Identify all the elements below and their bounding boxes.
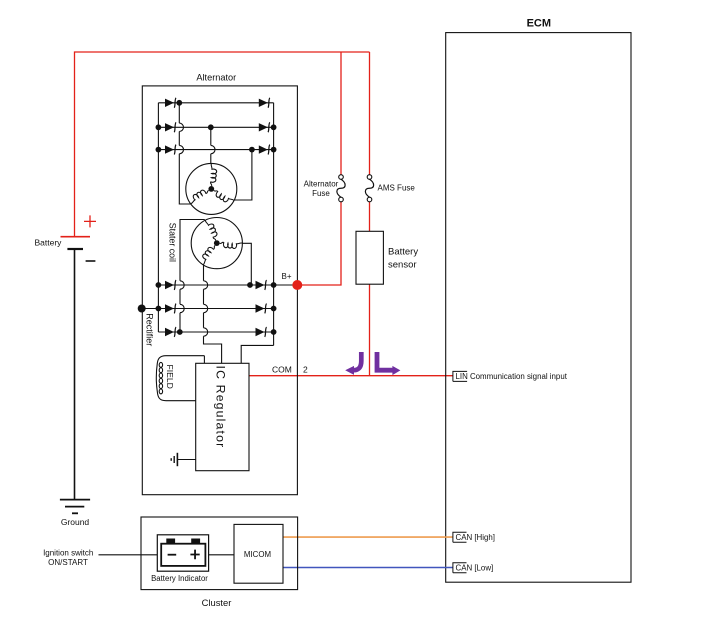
svg-text:FIELD: FIELD	[165, 365, 175, 389]
node row2 middle	[208, 124, 214, 130]
svg-text:MICOM: MICOM	[244, 550, 271, 559]
node row2 right	[271, 124, 277, 130]
wire hop stator2-top over row 5	[180, 304, 184, 312]
stator winding circle 1	[186, 163, 237, 214]
diode D4	[259, 122, 270, 132]
svg-text:CAN [High]: CAN [High]	[456, 533, 495, 542]
diode D5	[165, 145, 176, 155]
wire top rail drop to alternator fuse (red)	[340, 52, 342, 175]
svg-text:sensor: sensor	[388, 259, 417, 270]
wire CAN High (orange)	[283, 536, 453, 538]
wire hop stator2-bottom over row 5	[204, 304, 208, 312]
diode D1	[165, 98, 176, 108]
node row5 left	[156, 306, 162, 312]
diode D7	[165, 280, 176, 290]
svg-text:Cluster: Cluster	[202, 597, 232, 608]
wire phase W (row3 to stator1 right)	[234, 150, 252, 200]
node row1 phase junction	[176, 100, 182, 106]
wire AMS fuse to battery sensor (red)	[369, 202, 371, 232]
svg-text:Battery: Battery	[35, 238, 63, 248]
CAN High connector pin	[453, 532, 467, 542]
diode D6	[259, 145, 270, 155]
LIN direction arrow right	[377, 352, 400, 375]
ECM box	[446, 33, 631, 583]
svg-text:COM: COM	[272, 364, 292, 374]
wire hop row1-phase over row 3	[179, 145, 183, 153]
svg-text:Rectifier: Rectifier	[145, 313, 155, 346]
field coil L1	[156, 356, 204, 401]
diode D9	[165, 304, 176, 314]
wire hop stator2-bottom over row 6	[204, 328, 208, 336]
wire left rail	[157, 103, 159, 332]
diode D11	[165, 327, 176, 337]
node row3 left	[156, 147, 162, 153]
wire phase U (row1 to stator1 left)	[179, 103, 190, 204]
wire battery indicator to MICOM	[209, 554, 234, 556]
svg-text:2: 2	[303, 364, 308, 374]
wire phase V (row2 to stator1 top)	[210, 127, 212, 163]
node row6 right	[271, 329, 277, 335]
LIN direction arrow left	[345, 352, 361, 375]
ground symbol (IC regulator)	[171, 453, 177, 466]
wire battery negative to ground	[74, 249, 76, 499]
wire CAN Low (blue)	[283, 567, 453, 569]
wire battery sensor to LIN line (red)	[369, 284, 371, 376]
node row4 right	[271, 282, 277, 288]
node row3 phase	[249, 147, 255, 153]
svg-text:AMS Fuse: AMS Fuse	[378, 183, 416, 192]
wire alternator fuse to B+ node (red)	[300, 202, 341, 285]
wire rectifier row 4 (B+ row)	[158, 284, 297, 286]
node row4 left	[156, 282, 162, 288]
node row2 left	[156, 124, 162, 130]
CAN Low connector pin	[453, 563, 467, 573]
node row5 case ground	[138, 305, 146, 313]
diode D12	[256, 327, 267, 337]
diode D2	[259, 98, 270, 108]
svg-text:Battery: Battery	[388, 247, 418, 258]
battery B1 plus sign	[84, 215, 96, 227]
svg-text:Alternator: Alternator	[304, 179, 339, 188]
battery B1 minus sign	[86, 260, 96, 262]
svg-text:IC Regulator: IC Regulator	[214, 366, 228, 449]
cluster box	[141, 517, 298, 590]
wire battery positive to top rail (red)	[75, 52, 370, 237]
diode D8	[256, 280, 267, 290]
wire right rail to IC regulator	[241, 345, 273, 363]
wire stator2 top coil to row 6	[180, 220, 205, 333]
svg-text:Alternator: Alternator	[196, 72, 236, 82]
wire rectifier row 2	[158, 126, 273, 128]
wire ignition switch to battery indicator	[99, 554, 158, 556]
stator winding circle 2	[191, 218, 242, 269]
svg-text:ON/START: ON/START	[48, 558, 88, 567]
MICOM box	[234, 524, 283, 583]
IC regulator U1	[196, 363, 249, 470]
svg-text:B+: B+	[282, 272, 292, 281]
alternator enclosure box	[142, 86, 297, 495]
svg-text:Fuse: Fuse	[312, 189, 330, 198]
battery indicator icon	[157, 535, 208, 571]
svg-text:Stater coil: Stater coil	[168, 223, 178, 262]
battery B1 positive plate	[61, 236, 91, 238]
node row3 right	[271, 147, 277, 153]
svg-text:ECM: ECM	[527, 18, 551, 30]
battery sensor module	[356, 231, 383, 284]
wire rectifier row 5	[142, 308, 274, 310]
ground symbol (battery)	[60, 500, 90, 514]
diode D10	[256, 304, 267, 314]
fuse F2 AMS fuse	[367, 175, 372, 180]
node row5 right	[271, 306, 277, 312]
svg-text:Ignition switch: Ignition switch	[43, 548, 93, 557]
fuse F1 alternator fuse	[339, 175, 344, 180]
wire hop stator2-top over row 4	[180, 281, 184, 289]
diode D3	[165, 122, 176, 132]
svg-text:LIN Communication signal input: LIN Communication signal input	[456, 372, 568, 381]
node row6 phase	[177, 329, 183, 335]
svg-text:Battery Indicator: Battery Indicator	[151, 574, 208, 583]
wire stator2 bottom coil to IC regulator	[204, 265, 222, 363]
wire rectifier row 3	[158, 149, 273, 151]
wire rectifier row 1	[158, 102, 273, 104]
wire COM to ECM LIN input (red)	[249, 375, 453, 377]
wire hop row2-phase over row 3	[211, 145, 215, 153]
node B+ output	[292, 280, 302, 290]
wire hop stator2-bottom over row 4	[204, 281, 208, 289]
LIN connector pin	[453, 371, 467, 381]
node row4 phase	[247, 282, 253, 288]
wire right rail	[273, 103, 275, 346]
wire hop row1-phase over row 2	[179, 123, 183, 131]
svg-text:Ground: Ground	[61, 517, 90, 527]
svg-text:CAN [Low]: CAN [Low]	[456, 563, 494, 572]
wire IC regulator to ground	[177, 459, 195, 461]
wire stator2 right coil to row 4	[242, 243, 251, 285]
wire top rail drop to AMS fuse (red)	[369, 52, 371, 175]
battery B1 negative plate	[67, 248, 83, 250]
wire rectifier row 6	[158, 331, 273, 333]
